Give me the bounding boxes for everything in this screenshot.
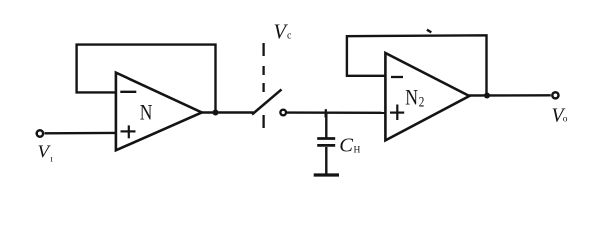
svg-text:N: N [405, 85, 418, 110]
svg-text:o: o [563, 114, 568, 124]
switch S arm [252, 89, 282, 114]
op-amp U2 (N2) triangle [385, 53, 469, 140]
op-amp U1 (N) triangle [116, 73, 202, 151]
svg-text:N: N [140, 99, 153, 124]
stray tick mark above N2 feedback [427, 30, 431, 33]
svg-text:2: 2 [419, 94, 425, 110]
label N2 [405, 85, 424, 111]
capacitor CH top lead [325, 113, 327, 139]
op-amp U2 plus input mark [390, 105, 404, 121]
wire (N2 output to Vo terminal) [468, 94, 551, 97]
capacitor CH bottom lead [325, 147, 327, 174]
label Vo [552, 105, 568, 126]
svg-text:ı: ı [50, 154, 53, 164]
control line Vc (dashed) [262, 43, 264, 128]
label CH [339, 135, 360, 157]
wire (switch to N2 non-inverting input) [287, 111, 385, 114]
input terminal Vi [37, 130, 43, 136]
svg-text:c: c [287, 31, 292, 42]
node (junction at N output) [213, 110, 219, 116]
wire (N output to switch) [201, 111, 254, 113]
svg-text:H: H [354, 146, 361, 156]
node (junction at N2 output) [484, 93, 490, 99]
label Vi [38, 142, 54, 164]
wire [45, 132, 116, 135]
capacitor CH plates [317, 139, 335, 146]
output terminal Vo [552, 92, 558, 98]
svg-text:V: V [274, 20, 289, 44]
node (capacitor junction) [324, 109, 327, 117]
svg-text:V: V [38, 142, 52, 162]
op-amp U1 plus input mark [121, 125, 136, 138]
wire (feedback loop of N2: output up, across top, down to inverting input) [347, 35, 487, 93]
ground [314, 173, 339, 176]
label Vc [274, 20, 293, 44]
op-amp U2 minus input mark [391, 76, 403, 78]
op-amp U1 minus input mark [120, 91, 136, 93]
switch contact terminal [280, 110, 286, 116]
svg-text:C: C [339, 135, 353, 157]
wire (feedback loop of N: output up, across top, down to inverting input) [77, 45, 216, 110]
